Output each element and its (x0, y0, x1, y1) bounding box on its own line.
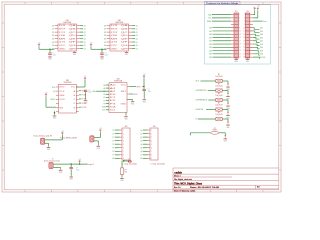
svg-text:SH/LD: SH/LD (51, 99, 57, 101)
svg-text:SHCP: SHCP (111, 29, 118, 31)
svg-text:Q3: Q3 (140, 140, 142, 142)
svg-text:GND: GND (59, 48, 67, 50)
net labels right of U$3 (79, 91, 86, 109)
svg-text:1: 1 (239, 14, 240, 16)
svg-text:23: 23 (239, 50, 241, 52)
net labels left of U$3 (51, 87, 57, 101)
connector JP3 (120, 126, 131, 160)
ground under JP1 (234, 58, 238, 63)
svg-text:Rev: Rev (257, 186, 260, 188)
svg-text:D0: D0 (52, 25, 54, 27)
ground under C U$2 (100, 56, 104, 61)
diode/LED row 5 (227, 122, 229, 123)
svg-text:R-COL_RPSTD_BLGH: R-COL_RPSTD_BLGH (60, 137, 77, 139)
svg-text:Connect for Arduino Mega: Connect for Arduino Mega (206, 2, 238, 5)
svg-text:QA: QA (121, 24, 128, 27)
svg-text:5: 5 (151, 144, 152, 146)
svg-text:2: 2 (123, 133, 124, 135)
svg-text:GND: GND (59, 107, 64, 109)
svg-text:SER: SER (59, 95, 66, 97)
supply +5V X2 (99, 128, 102, 132)
svg-text:GND: GND (48, 59, 52, 61)
svg-text:VCC: VCC (59, 45, 67, 47)
diode/LED row 2 (227, 93, 229, 94)
svg-text:+5V: +5V (99, 128, 102, 130)
wires/net labels left of JP3 (112, 130, 119, 160)
ground under C U$3 (84, 99, 88, 104)
svg-text:Q2: Q2 (136, 32, 138, 34)
svg-text:12: 12 (243, 31, 245, 33)
supply +3V3 JP2 b (257, 8, 259, 10)
svg-text:U$1: U$1 (66, 20, 69, 22)
ground under JP2 (246, 58, 250, 63)
svg-text:9: 9 (239, 27, 240, 29)
svg-text:Q6: Q6 (136, 45, 138, 47)
svg-text:GND: GND (111, 48, 119, 50)
pin header JP2 right bar (243, 11, 253, 59)
ground under C U$1 (48, 56, 52, 61)
svg-text:Q1: Q1 (84, 29, 86, 31)
capacitor (48, 53, 52, 55)
IC U$1 74HC595 shift register (52, 20, 86, 51)
svg-text:GND: GND (59, 172, 63, 174)
svg-text:7: 7 (239, 24, 240, 26)
wire VCC to U$4 (143, 78, 145, 87)
connector JP4 (148, 126, 159, 160)
svg-text:74HC165N: 74HC165N (63, 82, 72, 84)
svg-text:7: 7 (123, 151, 124, 153)
svg-text:D6: D6 (52, 45, 54, 47)
ground under U$3 (54, 111, 55, 114)
svg-text:D50: D50 (260, 31, 263, 33)
svg-text:Q5: Q5 (84, 42, 86, 44)
svg-text:P1: P1 (110, 97, 116, 99)
svg-text:VCC: VCC (111, 45, 119, 47)
svg-text:4: 4 (244, 17, 245, 19)
svg-text:+5V: +5V (143, 74, 146, 76)
svg-text:U$4: U$4 (117, 78, 120, 80)
svg-text:D40: D40 (260, 47, 263, 49)
svg-text:P0: P0 (113, 130, 115, 132)
svg-text:10k: 10k (125, 172, 128, 174)
ground under U$2 (125, 51, 129, 56)
svg-text:U$2: U$2 (118, 20, 121, 22)
svg-text:Q7: Q7 (136, 48, 138, 50)
capacitor (69, 167, 73, 169)
svg-text:P1: P1 (103, 97, 105, 99)
svg-text:R?: R? (218, 93, 220, 95)
svg-text:Q7: Q7 (140, 155, 142, 157)
svg-text:D43: D43 (209, 44, 212, 46)
ground X2 (97, 145, 101, 150)
svg-text:GND: GND (131, 104, 135, 106)
svg-text:ROW1: ROW1 (82, 91, 87, 93)
wire VCC to U$3 pin 16 (76, 80, 85, 87)
svg-text:100n: 100n (53, 54, 57, 56)
svg-text:D46: D46 (260, 37, 263, 39)
ground under U$1 (73, 51, 77, 56)
svg-text:SCK: SCK (196, 81, 200, 83)
svg-text:D5: D5 (104, 42, 106, 44)
svg-text:20: 20 (243, 44, 245, 46)
ground row 6 (224, 137, 228, 142)
wire X3 pin1 +5V rail (53, 163, 88, 165)
svg-text:GND: GND (226, 127, 230, 129)
svg-text:GND: GND (73, 54, 77, 56)
svg-text:C?: C? (53, 53, 55, 55)
svg-text:QH: QH (53, 91, 56, 93)
svg-text:SHCP: SHCP (59, 29, 66, 31)
svg-text:5: 5 (123, 144, 124, 146)
svg-text:U$3: U$3 (66, 80, 69, 82)
svg-text:D4: D4 (104, 39, 106, 41)
svg-text:P7: P7 (113, 155, 115, 157)
group box Connect for Arduino Mega (205, 5, 271, 64)
svg-text:Q3: Q3 (84, 35, 86, 37)
svg-text:STCP: STCP (111, 32, 118, 34)
svg-text:16: 16 (243, 37, 245, 39)
screw terminal X2 (90, 136, 94, 142)
svg-text:Date: 25.10.2017 19:05: Date: 25.10.2017 19:05 (190, 186, 219, 189)
svg-text:D48: D48 (260, 34, 263, 36)
svg-text:D3: D3 (104, 35, 106, 37)
svg-text:Q2: Q2 (84, 32, 86, 34)
ground X3 (59, 169, 63, 174)
svg-text:4: 4 (151, 140, 152, 142)
capacitor C bypass U$2 (100, 53, 108, 57)
svg-text:Q4: Q4 (140, 144, 142, 146)
svg-text:CLK: CLK (59, 91, 64, 93)
svg-text:QA: QA (69, 24, 76, 27)
title block (173, 168, 279, 193)
supply +5V U$1 (38, 43, 41, 47)
svg-text:F?: F? (214, 128, 216, 130)
supply +5V U$2 (90, 43, 93, 47)
svg-text:Q6: Q6 (84, 45, 86, 47)
svg-text:GPIO?: GPIO? (133, 94, 138, 96)
svg-text:Q0: Q0 (140, 130, 142, 132)
svg-text:QF: QF (121, 42, 128, 44)
capacitor C bypass U$4 (142, 86, 151, 99)
svg-text:P3: P3 (113, 140, 115, 142)
svg-text:Q3: Q3 (136, 35, 138, 37)
supply +5V X1 (61, 131, 64, 135)
svg-text:Q5: Q5 (140, 148, 142, 150)
svg-text:OE: OE (111, 35, 118, 37)
svg-text:GPIO?: GPIO? (136, 86, 141, 88)
svg-text:10k_R-US: 10k_R-US (216, 95, 223, 97)
svg-text:B: B (196, 119, 198, 121)
svg-text:SDA: SDA (110, 105, 116, 108)
svg-text:17: 17 (239, 40, 241, 42)
svg-text:GND: GND (235, 61, 239, 63)
resistor R4 row LEDMOSI (196, 103, 229, 113)
svg-text:3: 3 (151, 137, 152, 139)
svg-text:C?: C? (88, 90, 90, 92)
svg-text:QE: QE (69, 38, 76, 40)
svg-text:2: 2 (244, 14, 245, 16)
screw terminal X3 (49, 162, 53, 168)
wire X3 pin2 to ground (53, 168, 60, 169)
capacitor C bypass U$1 (48, 53, 56, 57)
svg-text:JP3: JP3 (125, 126, 128, 128)
svg-text:Q1: Q1 (136, 29, 138, 31)
svg-text:D39: D39 (209, 50, 212, 52)
svg-text:8: 8 (123, 155, 124, 157)
wire +5V to U$2 (91, 47, 107, 53)
supply +5V left of U$3 (45, 93, 48, 97)
svg-text:6: 6 (151, 147, 152, 149)
svg-text:D0: D0 (104, 25, 106, 27)
page frame outer (2, 2, 281, 192)
svg-text:SCL: SCL (102, 110, 105, 112)
wire X2 pin2 to ground (94, 141, 98, 145)
svg-text:QB: QB (121, 29, 128, 31)
svg-text:MR: MR (59, 38, 68, 40)
svg-text:A2: A2 (110, 90, 116, 93)
svg-text:+5V: +5V (90, 43, 93, 45)
svg-text:100n: 100n (148, 91, 152, 93)
svg-text:D36: D36 (260, 54, 263, 56)
resistor R3 row S-EPWM/MOSI (196, 93, 229, 103)
net GPIO7 right of U$4 (127, 86, 144, 88)
svg-text:22: 22 (243, 47, 245, 49)
svg-text:SDA: SDA (92, 90, 96, 93)
svg-text:GN: GN (140, 158, 143, 160)
svg-text:VCC: VCC (121, 85, 128, 87)
wire X1 pin2 to ground (45, 143, 49, 146)
ground under bulk C (69, 176, 73, 181)
svg-text:R?: R? (218, 74, 220, 76)
svg-text:A: A (74, 90, 76, 93)
diode/LED row 1 (227, 84, 229, 85)
svg-text:C?: C? (105, 53, 107, 55)
svg-text:P0: P0 (110, 94, 116, 96)
wires/net labels left of JP4 (140, 130, 147, 160)
svg-text:STCP: STCP (59, 32, 66, 34)
svg-text:GND: GND (53, 118, 57, 120)
svg-text:D4: D4 (52, 39, 54, 41)
svg-text:P2: P2 (113, 137, 115, 139)
svg-text:Rev: 1.0: Rev: 1.0 (174, 187, 181, 189)
svg-text:D47: D47 (209, 37, 212, 39)
svg-text:D42: D42 (260, 44, 263, 46)
svg-text:Q7: Q7 (84, 48, 86, 50)
svg-text:D35: D35 (209, 57, 212, 59)
svg-text:GND: GND (70, 179, 74, 181)
svg-text:Reset: Reset (262, 20, 267, 23)
svg-text:SCL: SCL (110, 110, 116, 112)
svg-text:Q5: Q5 (136, 42, 138, 44)
svg-text:GND: GND (143, 102, 147, 104)
svg-text:P5: P5 (113, 148, 115, 150)
label X3 (44, 158, 60, 162)
capacitor (100, 53, 104, 55)
svg-text:D45: D45 (209, 41, 212, 43)
svg-text:CLKIN: CLKIN (59, 99, 64, 101)
svg-text:4: 4 (123, 140, 124, 142)
svg-text:P3: P3 (110, 103, 116, 105)
svg-text:R?: R? (218, 112, 220, 114)
svg-text:13: 13 (239, 34, 241, 36)
svg-text:8: 8 (151, 155, 152, 157)
svg-text:10k_R-US: 10k_R-US (216, 104, 223, 106)
svg-text:21: 21 (239, 47, 241, 49)
svg-text:SCL: SCL (208, 18, 211, 20)
ground row 4 (226, 114, 230, 119)
ground row 1 (226, 86, 230, 91)
capacitor (142, 89, 146, 91)
capacitor C bulk 100u (69, 164, 79, 175)
capacitor C bypass U$3 (84, 90, 92, 100)
svg-text:28: 28 (243, 57, 245, 59)
svg-text:D37: D37 (209, 54, 212, 56)
svg-text:19: 19 (239, 44, 241, 46)
supply +5V above U$4 (143, 74, 146, 78)
svg-text:Q7S: Q7S (59, 42, 66, 44)
svg-text:D6: D6 (104, 45, 106, 47)
svg-text:GND: GND (224, 141, 228, 143)
svg-text:OE: OE (59, 35, 66, 37)
svg-text:6: 6 (123, 147, 124, 149)
supply +5V rail X3 (78, 159, 81, 163)
ground X1 (47, 146, 51, 151)
svg-text:C?: C? (76, 168, 78, 170)
ground under U$4 (125, 113, 127, 116)
svg-text:P1: P1 (113, 133, 115, 135)
resistor R5 row B (196, 112, 229, 122)
svg-text:11: 11 (239, 31, 241, 33)
svg-text:DCD04: DCD04 (260, 57, 265, 59)
svg-text:QE: QE (121, 38, 128, 40)
svg-text:18: 18 (243, 40, 245, 42)
svg-text:D52: D52 (260, 27, 263, 29)
svg-text:cadlab: cadlab (174, 171, 182, 174)
svg-text:+5V: +5V (38, 43, 41, 45)
svg-text:DS: DS (111, 25, 118, 27)
svg-text:Q6: Q6 (140, 151, 142, 153)
svg-text:GN: GN (112, 158, 115, 160)
svg-text:10: 10 (243, 27, 245, 29)
svg-text:GND: GND (121, 103, 128, 105)
svg-text:3V3: 3V3 (257, 5, 260, 7)
svg-text:D1: D1 (104, 29, 106, 31)
svg-text:S-EPWM/TXD: S-EPWM/TXD (196, 90, 208, 92)
svg-text:C_mega_Clock_Mate: C_mega_Clock_Mate (151, 162, 166, 165)
screw terminal X1 (41, 138, 45, 144)
ground row 2 (226, 95, 230, 100)
svg-text:SCK: SCK (52, 87, 56, 89)
svg-text:5V: 5V (253, 7, 255, 9)
svg-text:Q2: Q2 (140, 137, 142, 139)
svg-text:Q4: Q4 (136, 39, 138, 41)
svg-text:GND: GND (100, 59, 104, 61)
svg-text:ROW4: ROW4 (82, 103, 87, 105)
svg-text:INT: INT (121, 91, 127, 93)
svg-text:C_mega_Clock_Mate: C_mega_Clock_Mate (123, 162, 138, 165)
ground right of U$4 (131, 100, 135, 105)
svg-text:100u: 100u (76, 170, 80, 172)
net GPIO6 right of U$4 (127, 94, 138, 96)
svg-text:SH/LD: SH/LD (59, 87, 65, 89)
pin header JP1 left bar (231, 11, 241, 59)
wire U$4 pin to ground right (127, 99, 133, 102)
wires right of JP2 (253, 10, 262, 58)
svg-text:E: E (74, 107, 76, 109)
svg-text:3: 3 (239, 17, 240, 19)
wire X2 pin1 to +5V (94, 132, 100, 137)
svg-text:10k_R-US: 10k_R-US (216, 85, 223, 87)
wire +5V to U$1 (39, 47, 55, 53)
wire SDA long left of U$4 (92, 90, 106, 93)
svg-text:R?: R? (218, 103, 220, 105)
svg-text:Q4: Q4 (84, 39, 86, 41)
svg-text:GND: GND (120, 180, 124, 182)
svg-text:S-EPWM/MOSI: S-EPWM/MOSI (196, 100, 208, 102)
svg-text:MR: MR (111, 38, 120, 40)
svg-text:A0: A0 (110, 84, 116, 87)
svg-text:P2: P2 (110, 100, 116, 102)
svg-text:5: 5 (239, 21, 240, 23)
wires and net labels left of JP1 (207, 13, 231, 59)
svg-text:QF: QF (69, 42, 76, 44)
svg-text:JP4: JP4 (153, 126, 156, 128)
svg-text:P3: P3 (103, 103, 105, 105)
svg-text:2: 2 (151, 133, 152, 135)
crystal Y1 (128, 159, 132, 162)
svg-text:P2: P2 (103, 100, 105, 102)
svg-text:7: 7 (151, 151, 152, 153)
IC U$2 74HC595 shift register (104, 20, 138, 51)
svg-text:100n: 100n (105, 54, 109, 56)
svg-text:QH: QH (121, 48, 128, 50)
supply +5V right of U$3 (84, 76, 87, 80)
svg-text:D2: D2 (104, 32, 106, 34)
svg-text:15: 15 (239, 37, 241, 39)
wire +5V branch left of U$3 (46, 97, 56, 108)
svg-text:P6: P6 (113, 151, 115, 153)
diode/LED row 4 (227, 112, 229, 113)
capacitor (84, 90, 88, 92)
wire under JP3 (122, 160, 130, 168)
svg-text:D53: D53 (209, 27, 212, 29)
ground under C U$4 (142, 98, 146, 103)
svg-text:A1: A1 (103, 87, 105, 90)
svg-text:GND: GND (125, 54, 129, 56)
svg-text:27: 27 (239, 57, 241, 59)
resistor R1 row SCK (196, 74, 229, 84)
ground U$4 bottom (124, 115, 128, 120)
svg-text:ROW2: ROW2 (82, 95, 87, 97)
svg-text:+5V: +5V (61, 131, 64, 133)
svg-text:26: 26 (243, 53, 245, 55)
svg-text:ROW5: ROW5 (82, 107, 87, 109)
page frame inner (4, 4, 279, 190)
svg-text:GND: GND (47, 149, 51, 151)
svg-text:3: 3 (123, 137, 124, 139)
svg-text:+5V: +5V (45, 93, 48, 95)
svg-text:Q7S: Q7S (111, 42, 118, 44)
svg-text:ROW3: ROW3 (82, 99, 87, 101)
svg-text:J?: J? (52, 158, 54, 160)
diode row 6 (224, 136, 226, 137)
svg-text:File: Digital_clock.sch: File: Digital_clock.sch (174, 178, 192, 181)
svg-text:P4: P4 (113, 144, 115, 146)
svg-text:+5V: +5V (78, 159, 81, 161)
svg-text:Q1: Q1 (140, 133, 142, 135)
wire X1 pin1 to +5V (45, 135, 63, 140)
svg-text:A0: A0 (103, 84, 105, 87)
